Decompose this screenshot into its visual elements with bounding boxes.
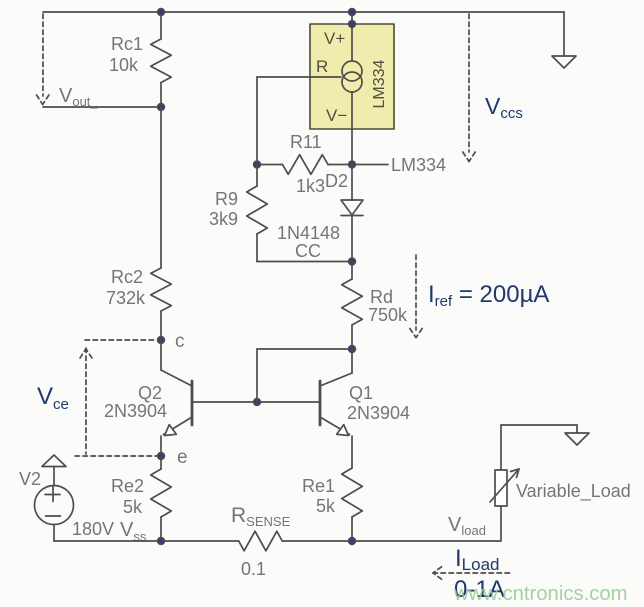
resistor Rd: [342, 262, 363, 350]
svg-text:V−: V−: [326, 106, 347, 125]
current source inside LM334: [342, 12, 362, 164]
dot at V_ce arrow tip: [85, 349, 88, 352]
node top rail above LM334: [349, 9, 356, 16]
wire V_out_ node to Rc1 bottom: [43, 106, 161, 108]
node e: [158, 453, 165, 460]
svg-text:Variable_Load: Variable_Load: [516, 481, 631, 502]
svg-text:LM334: LM334: [391, 155, 446, 175]
measurement arrow V_ccs (dashed): [463, 14, 475, 162]
svg-text:CC: CC: [295, 241, 321, 261]
node Q1 collector / Rd bottom: [349, 346, 356, 353]
svg-text:5k: 5k: [123, 497, 143, 517]
node c: [158, 337, 165, 344]
resistor R9: [247, 165, 268, 262]
resistor Re1: [342, 468, 363, 541]
wire LM334 R pin to R11 left node: [257, 77, 341, 164]
wire stub to LM334 net label: [355, 164, 388, 166]
voltage source V2 180V: [35, 455, 74, 541]
node Rc1 top: [158, 9, 165, 16]
wire CC net (R9 bottom to D2 cathode): [257, 261, 352, 263]
svg-text:R11: R11: [290, 132, 322, 152]
svg-text:Q2: Q2: [138, 383, 162, 403]
svg-text:c: c: [175, 331, 185, 352]
svg-text:750k: 750k: [368, 305, 408, 325]
node CC / Rd top: [349, 258, 356, 265]
wire bottom rail left: [54, 540, 239, 542]
variable load resistor: [490, 425, 577, 541]
svg-text:R: R: [316, 57, 328, 76]
svg-text:10k: 10k: [109, 55, 139, 75]
ground bottom-right: [565, 433, 589, 445]
label Re2 5k: [111, 476, 144, 517]
svg-text:3k9: 3k9: [209, 209, 238, 229]
node R11 right / D2 anode: [349, 161, 356, 168]
dashed line at node c: [85, 339, 157, 341]
diode D2 1N4148: [341, 165, 363, 262]
svg-text:www.cntronics.com: www.cntronics.com: [453, 583, 628, 605]
svg-text:1k3: 1k3: [296, 176, 325, 196]
resistor Re2: [151, 456, 172, 541]
node V_out_: [158, 104, 165, 111]
resistor R11: [257, 155, 352, 175]
label Re1 5k: [302, 476, 336, 516]
wire Q2 base to Q1 base: [192, 401, 320, 403]
svg-text:2N3904: 2N3904: [104, 401, 167, 421]
node R11 left: [254, 161, 261, 168]
measurement arrow I_ref (dashed): [410, 255, 422, 338]
svg-text:V+: V+: [324, 29, 345, 48]
resistor Rc2: [151, 268, 172, 340]
label Rc1 10k: [109, 34, 143, 75]
measurement arrow V_out_ (dashed): [37, 14, 49, 105]
svg-text:5k: 5k: [316, 496, 336, 516]
resistor Rc1: [151, 12, 172, 107]
svg-text:Re1: Re1: [302, 476, 335, 496]
node Re2 bottom: [158, 538, 165, 545]
svg-text:D2: D2: [325, 171, 348, 191]
wire top power rail: [43, 11, 564, 13]
transistor Q2 2N3904: [161, 340, 192, 456]
node LM334 V+ pin: [349, 21, 356, 28]
node base junction: [254, 399, 261, 406]
LM334 block (U1): [310, 24, 394, 129]
svg-text:Rd: Rd: [370, 287, 393, 307]
svg-text:0.1: 0.1: [241, 559, 266, 579]
wire V_out_ node down to Rc2: [160, 107, 162, 268]
label Rd 750k: [368, 287, 408, 325]
label R11 1k3: [290, 132, 325, 196]
measurement arrow I_Load (dashed): [433, 567, 510, 579]
svg-text:732k: 732k: [106, 288, 146, 308]
svg-text:LM334: LM334: [371, 59, 388, 108]
wire bottom rail right: [282, 540, 501, 542]
ground top-right: [552, 12, 576, 68]
svg-text:Q1: Q1: [349, 383, 373, 403]
svg-text:Rc1: Rc1: [111, 34, 143, 54]
svg-text:180V: 180V: [72, 519, 114, 539]
svg-text:Rc2: Rc2: [111, 267, 143, 287]
svg-text:2N3904: 2N3904: [347, 403, 410, 423]
transistor Q1 2N3904: [320, 349, 352, 468]
label Rc2 732k: [106, 267, 146, 308]
svg-text:Re2: Re2: [111, 476, 144, 496]
svg-text:R9: R9: [215, 189, 238, 209]
dashed line at node e: [75, 455, 157, 457]
label R9 3k9: [209, 189, 238, 229]
wire base junction up and to Q1 collector node: [257, 349, 352, 402]
resistor R_SENSE: [239, 531, 283, 551]
svg-text:1N4148: 1N4148: [277, 223, 340, 243]
svg-text:V2: V2: [19, 469, 41, 489]
measurement arrow V_ce (dashed): [80, 348, 92, 454]
svg-text:e: e: [177, 447, 188, 468]
node Re1 bottom / Vload: [349, 538, 356, 545]
